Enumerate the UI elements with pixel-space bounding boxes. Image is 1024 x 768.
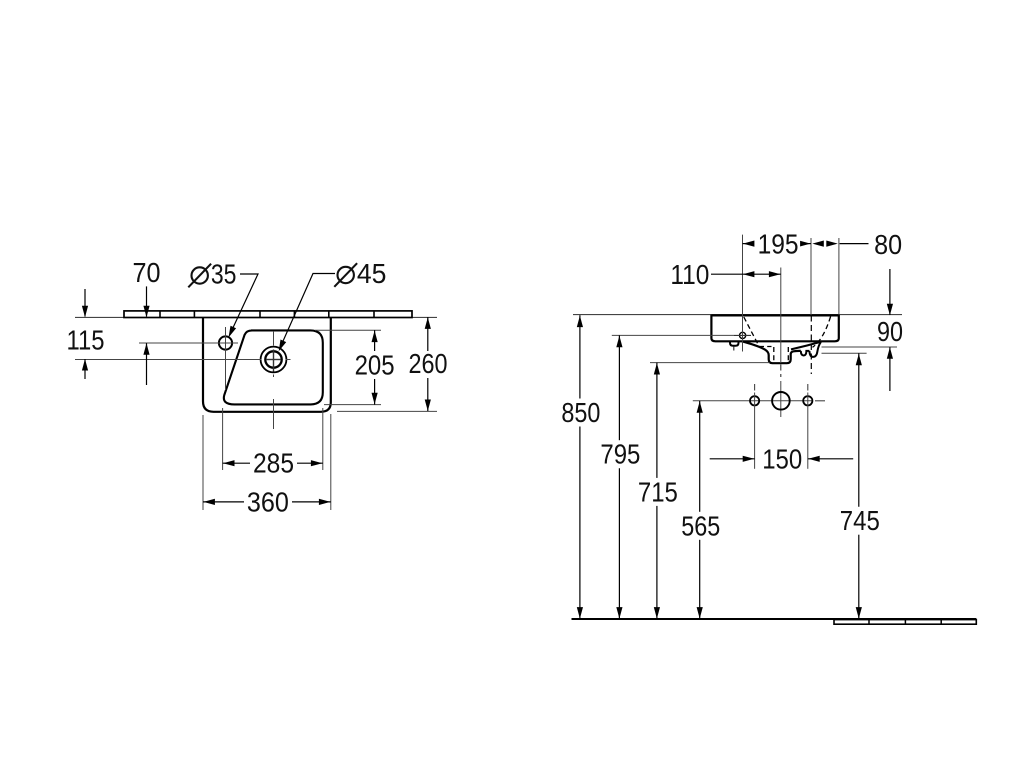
leader line to tap hole [231, 274, 258, 333]
dimension 260 arrow down [425, 400, 431, 412]
wall line (plan, thin) [75, 316, 437, 318]
svg-text:745: 745 [840, 505, 880, 536]
svg-text:260: 260 [409, 348, 448, 379]
dimension 150 leader right [808, 458, 853, 460]
dimension 80 leader [840, 243, 869, 245]
dimension label 205 [353, 354, 396, 377]
dimension 90 line lower tail [889, 347, 891, 391]
basin inner bowl outline (plan) [224, 330, 323, 404]
tap hole centerline horizontal [139, 342, 238, 344]
dimension 360 arrow right [319, 499, 331, 505]
basin axis through mounting hole [780, 381, 782, 417]
vertical centerline x=780.8 (basin axis) [780, 268, 782, 364]
drain centerline horizontal [75, 359, 262, 361]
svg-text:195: 195 [758, 229, 799, 260]
dimension 150 leader left [710, 458, 755, 460]
dimension 90 arrow up [887, 347, 893, 359]
dimension label 195 [756, 233, 800, 256]
dimension 260 line [427, 317, 429, 351]
mounting hook small (elevation) [801, 351, 810, 356]
tap hole circle (∅35) [219, 336, 232, 349]
drain centerline vertical [273, 331, 275, 346]
vertical extension line x=742.5 (tap axis) [742, 235, 744, 352]
svg-text:360: 360 [247, 487, 289, 518]
rim top line (thin) [573, 314, 902, 316]
dimension label 260 [407, 352, 449, 375]
left fixing tab (elevation) [730, 341, 739, 346]
right fixing hole circle [803, 396, 812, 405]
dimension 115 arrow down [82, 306, 88, 318]
dimension 90 arrow down [887, 304, 893, 316]
dimension 360 arrow left [203, 499, 215, 505]
dimension 285 extension right [322, 408, 324, 470]
tap hole hidden cross circle [740, 332, 746, 338]
dimension 115 line upper [84, 289, 86, 317]
dimension 110 arrow right [769, 271, 781, 277]
dimension 285 extension left [222, 408, 224, 470]
hidden drain pipe right (dashed) [787, 347, 789, 362]
dimension 285 arrow right [311, 460, 323, 466]
basin rim band top edge thick [711, 314, 838, 316]
dimension 195 line [743, 243, 755, 245]
leader arrow at tap hole [229, 326, 237, 338]
svg-text:115: 115 [67, 325, 105, 356]
vertical extension line x=839 (right edge) [838, 238, 840, 315]
dimension 745 (floor to bracket) [858, 353, 860, 506]
drain hole inner circle [265, 351, 281, 367]
basin rim band (elevation) [711, 315, 838, 342]
mounting holes centerline horizontal [693, 400, 813, 402]
left fixing hole axis lower [754, 393, 756, 469]
right fixing hole axis lower [807, 393, 809, 469]
dimension 795 extension line [612, 334, 734, 336]
dimension 260 arrow up [425, 317, 431, 329]
vertical extension line x=811 upper [810, 238, 812, 315]
label ∅35 with leader [192, 267, 208, 283]
dimension 110 arrow left [743, 271, 755, 277]
label ∅45 with leader [338, 267, 354, 283]
bowl underside and drain boss (elevation) [742, 341, 801, 363]
dimension 70 arrow down [143, 306, 149, 318]
dimension 195 arrow right [799, 241, 811, 247]
dimension 285 line [223, 462, 250, 464]
svg-text:70: 70 [133, 257, 161, 288]
dimension 90 extension line lower [822, 346, 898, 348]
dimension 360 extension left [202, 415, 204, 510]
dimension 850 (floor to rim) [579, 315, 581, 398]
dimension 205 arrow down [372, 393, 378, 405]
svg-text:90: 90 [877, 316, 903, 347]
dimension label 285 [252, 452, 296, 475]
hidden drain pipe left (dashed) [773, 347, 775, 362]
svg-text:110: 110 [670, 259, 709, 290]
wall section bar (plan) [124, 311, 412, 318]
dimension 795 (floor to tap center) [618, 335, 620, 440]
svg-text:715: 715 [638, 476, 678, 507]
dimension 260 extension bottom [337, 410, 437, 412]
overflow axis (dash line) [810, 316, 812, 375]
dimension 80 arrow right [826, 241, 838, 247]
dimension 360 extension right [330, 414, 332, 510]
hidden bowl line right (dashed arc) [813, 317, 831, 348]
svg-text:565: 565 [681, 510, 720, 541]
dimension 745 extension line [822, 352, 867, 354]
bowl underside sweep to right corner [791, 342, 821, 350]
mounting hook large (elevation) [809, 342, 821, 357]
dimension 205 extension top [315, 329, 381, 331]
floor tile bar [834, 620, 976, 625]
drain hole outer circle (∅45) [261, 347, 287, 373]
svg-text:850: 850 [561, 397, 600, 428]
dimension 360 line [203, 501, 244, 503]
dimension 205 extension bottom [324, 404, 381, 406]
dimension 115 line lower tail [84, 359, 86, 379]
dimension label 360 [245, 491, 290, 514]
dimension 80 arrow left [812, 241, 824, 247]
dimension 715 (floor to boss bottom) [656, 363, 658, 478]
tap hole cross horizontal arm [734, 334, 751, 336]
dimension 70 line lower tail [146, 343, 148, 385]
dimension 205 line [374, 330, 376, 351]
dimension 70 arrow up [143, 343, 149, 355]
svg-text:35: 35 [211, 259, 237, 290]
svg-text:285: 285 [253, 448, 294, 479]
dimension 285 arrow left [223, 460, 235, 466]
right fixing hole axis dash [807, 384, 809, 391]
centerline below boss (dash) [780, 365, 782, 378]
leader arrow at drain [279, 340, 287, 352]
dimension 565 (floor to fixing holes) [699, 401, 701, 512]
dimension 110 leader [711, 273, 743, 275]
dimension 205 arrow up [372, 331, 378, 343]
central drain hole circle (elevation) [772, 392, 790, 410]
left fixing hole axis dash [754, 384, 756, 391]
dimension 90 line upper [889, 269, 891, 315]
svg-text:795: 795 [600, 439, 640, 470]
leader line to drain hole [280, 274, 335, 348]
dimension 115 arrow up [82, 359, 88, 371]
mounting holes centerline dash right [815, 400, 825, 402]
floor tile ticks [868, 620, 870, 625]
svg-text:80: 80 [874, 229, 902, 260]
floor line [572, 618, 977, 620]
wall bar tile ticks [159, 311, 161, 318]
svg-text:45: 45 [357, 258, 387, 289]
svg-text:205: 205 [355, 350, 395, 381]
left tab axis dash [733, 347, 735, 353]
dimension 715 extension line [650, 362, 770, 364]
left fixing hole circle [750, 396, 759, 405]
dimension 195 arrow left [743, 241, 755, 247]
svg-text:150: 150 [762, 444, 802, 475]
dimension 150 arrow right-pointing [743, 456, 755, 462]
hidden bowl bottom (dashed) [759, 346, 772, 348]
dimension 150 arrow left-pointing [808, 456, 820, 462]
dimension 110 line [743, 273, 781, 275]
dimension 70 line upper [146, 286, 148, 316]
hidden bowl line left (dashed) [744, 317, 759, 346]
tap hole centerline vertical [225, 327, 227, 390]
basin outer outline (plan) [203, 318, 331, 412]
